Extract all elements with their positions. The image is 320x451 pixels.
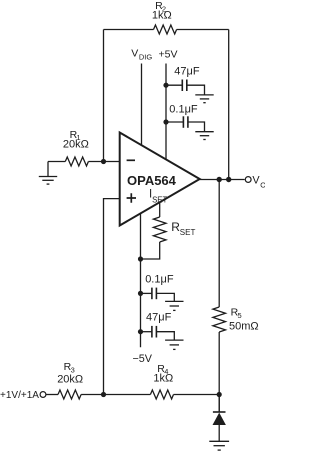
- svg-text:+1V/+1A: +1V/+1A: [0, 390, 39, 401]
- node: 47uF bottom junction: [138, 329, 143, 334]
- ground (0.1uF top): [195, 132, 213, 140]
- ground (0.1uF bottom): [165, 301, 183, 310]
- ground (47uF top): [195, 95, 213, 103]
- capacitor 47uF (bottom): [141, 326, 175, 340]
- wire: -5V line: [140, 213, 142, 347]
- wire: bottom rail R4 to junction: [174, 394, 220, 396]
- svg-text:5: 5: [238, 311, 242, 320]
- diode D1: [213, 395, 226, 442]
- svg-text:DIG: DIG: [139, 53, 153, 62]
- wire: ISET pin: [159, 202, 161, 217]
- node: +5V / 0.1uF junction: [163, 119, 168, 124]
- capacitor 0.1uF (bottom): [141, 288, 175, 302]
- svg-text:0.1μF: 0.1μF: [145, 274, 174, 286]
- resistor R5: [213, 307, 226, 332]
- wire: output: [200, 179, 245, 181]
- svg-text:0.1μF: 0.1μF: [169, 104, 198, 116]
- svg-text:SET: SET: [180, 228, 196, 237]
- resistor RSET: [153, 217, 166, 242]
- wire: R5 branch upper: [218, 180, 220, 308]
- wire: right feedback vertical: [228, 30, 230, 180]
- wire: VDIG supply: [141, 64, 143, 146]
- node: R5 / bottom rail junction: [217, 392, 222, 397]
- op-amp inverting input marker (minus): [127, 159, 135, 161]
- terminal +1V/+1A: [40, 392, 46, 398]
- wire: RSET bottom connector: [141, 242, 160, 259]
- svg-text:+5V: +5V: [159, 49, 178, 61]
- svg-text:20kΩ: 20kΩ: [63, 138, 89, 150]
- wire: R1 to inverting input: [88, 161, 119, 163]
- ground (R1 input): [39, 162, 57, 185]
- resistor R2: [154, 25, 177, 34]
- capacitor 47uF (top): [166, 80, 205, 95]
- wire: top feedback rail left lead: [104, 29, 154, 31]
- node: output / R5 junction: [217, 177, 222, 182]
- wire: top feedback rail right lead: [177, 29, 229, 31]
- op-amp noninverting input marker (plus): [127, 193, 136, 202]
- svg-text:O: O: [260, 181, 265, 190]
- wire: R5 branch lower: [218, 332, 220, 412]
- wire: left feedback vertical: [103, 30, 105, 162]
- resistor R4: [150, 390, 173, 399]
- op-amp U1 OPA564: [120, 133, 200, 226]
- terminal VO: [245, 177, 251, 183]
- node: 0.1uF bottom junction: [138, 291, 143, 296]
- wire: noninverting input: [104, 199, 120, 395]
- svg-text:1kΩ: 1kΩ: [153, 373, 173, 385]
- ground (diode): [209, 441, 229, 450]
- capacitor 0.1uF (top): [166, 116, 205, 131]
- svg-text:1kΩ: 1kΩ: [152, 9, 172, 21]
- wire: bottom rail R3-R4: [81, 394, 150, 396]
- wire: +5V supply: [165, 64, 167, 160]
- svg-text:20kΩ: 20kΩ: [57, 373, 83, 385]
- wire: R1 left lead: [48, 161, 65, 163]
- node: inverting input junction: [101, 159, 106, 164]
- resistor R1: [65, 157, 88, 166]
- ground (47uF bottom): [165, 340, 183, 349]
- node: output / feedback junction: [226, 177, 231, 182]
- svg-text:OPA564: OPA564: [127, 173, 177, 188]
- svg-text:V: V: [131, 48, 138, 60]
- svg-text:50mΩ: 50mΩ: [229, 320, 259, 332]
- node: +IN / bottom rail junction: [101, 392, 106, 397]
- wire: input lead: [46, 394, 58, 396]
- svg-text:V: V: [252, 174, 260, 186]
- node: +5V / 47uF junction: [163, 83, 168, 88]
- svg-text:47μF: 47μF: [146, 311, 172, 323]
- node: RSET / -5V line junction: [138, 256, 143, 261]
- svg-text:−5V: −5V: [133, 353, 153, 365]
- svg-text:47μF: 47μF: [174, 65, 200, 77]
- resistor R3: [58, 390, 81, 399]
